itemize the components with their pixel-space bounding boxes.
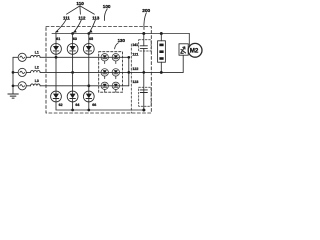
arrow from 113 to bus	[90, 20, 96, 32]
svg-text:121: 121	[132, 53, 138, 57]
thyristor 61	[55, 34, 57, 44]
thyristor 63	[72, 34, 74, 44]
phase A line	[40, 56, 129, 58]
node dot clamp/output	[142, 71, 145, 74]
arrow from 112 to bus	[74, 20, 81, 32]
svg-text:L3: L3	[35, 79, 39, 83]
wire box to output line	[182, 55, 184, 72]
switch row3 left	[101, 82, 108, 89]
svg-text:113: 113	[92, 15, 100, 20]
dashed sub-box 130	[99, 52, 123, 92]
thyristor 66	[83, 91, 94, 102]
svg-text:110: 110	[76, 1, 84, 6]
inductor L2	[31, 71, 41, 73]
phase B line to motor branch	[40, 71, 183, 73]
wire	[26, 56, 30, 58]
bottom DC bus	[56, 102, 145, 110]
inductor L1	[31, 55, 41, 57]
motor M2	[188, 43, 202, 57]
left source bus	[12, 57, 14, 94]
ground	[8, 94, 18, 98]
switch row1 left	[101, 54, 108, 61]
node A dot	[55, 56, 58, 59]
svg-text:123: 123	[132, 80, 138, 84]
inverter box	[179, 44, 188, 55]
AC source G1	[13, 56, 18, 58]
wire	[26, 85, 30, 87]
switch row3 right	[112, 82, 119, 89]
node dot bus/phase3	[12, 84, 15, 87]
dashed partition	[130, 44, 132, 113]
thyristor 64	[67, 91, 78, 102]
svg-text:100: 100	[103, 4, 111, 9]
clamp wire top	[143, 34, 145, 46]
svg-text:L2: L2	[35, 66, 39, 70]
AC source G2	[13, 71, 18, 73]
arrow from 111 to bus	[56, 20, 66, 32]
phase column wires	[56, 54, 89, 91]
svg-text:130: 130	[118, 38, 126, 43]
switch row1 right	[112, 54, 119, 61]
node B dot	[71, 71, 74, 74]
svg-text:112: 112	[78, 15, 86, 20]
battery 150	[158, 41, 166, 62]
svg-text:63: 63	[73, 37, 77, 41]
battery bottom wire	[160, 62, 162, 72]
motor branch riser	[188, 34, 190, 46]
svg-text:61: 61	[56, 37, 60, 41]
svg-text:111: 111	[63, 15, 70, 20]
svg-text:L1: L1	[35, 51, 39, 55]
node dot bus/phase2	[12, 71, 15, 74]
switch row2 left	[101, 69, 108, 76]
svg-text:66: 66	[92, 103, 96, 107]
svg-text:122: 122	[132, 67, 138, 71]
svg-text:62: 62	[59, 103, 63, 107]
capacitor 142	[140, 90, 147, 93]
leader from 100	[104, 9, 107, 21]
leader from 200	[144, 13, 146, 30]
svg-text:141: 141	[132, 43, 138, 47]
thyristor 65	[88, 34, 90, 44]
leader from 130	[115, 43, 119, 49]
output node vertical	[128, 57, 130, 86]
switch row2 right	[112, 69, 119, 76]
svg-text:M2: M2	[190, 48, 199, 55]
leader fan from 110	[67, 6, 95, 14]
svg-text:64: 64	[75, 103, 79, 107]
top DC bus	[52, 33, 189, 35]
svg-text:65: 65	[89, 37, 93, 41]
AC source G3	[13, 85, 18, 87]
node dot clamp/bottom bus	[142, 109, 145, 112]
battery feed wire	[160, 34, 162, 41]
switch stems	[105, 61, 116, 92]
wire	[26, 71, 30, 73]
node C dot	[87, 84, 90, 87]
capacitor 141	[140, 46, 147, 49]
inductor L3	[31, 84, 41, 86]
phase C line	[40, 85, 129, 87]
thyristor 62	[51, 91, 62, 102]
bus junction dots	[71, 32, 74, 35]
outer dashed box 100	[46, 27, 151, 114]
